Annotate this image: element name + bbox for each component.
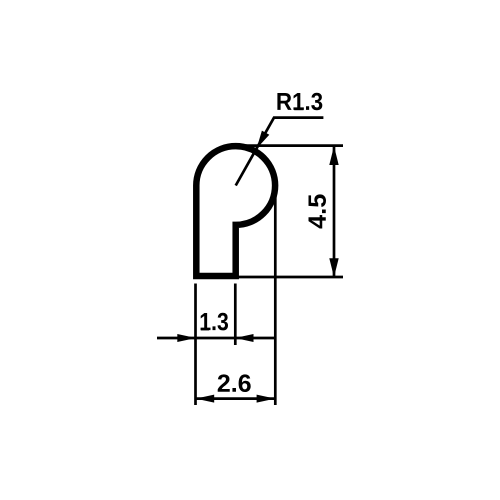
leader line R1.3 shelf and diagonal to circle centre xyxy=(236,118,324,186)
profile outline (P-seal cross-section) xyxy=(196,146,275,276)
label 2.6 xyxy=(218,374,251,392)
dimension line 4.5 vertical xyxy=(333,147,336,277)
arrowhead 2.6 right pointing right xyxy=(257,395,276,403)
arrowhead 1.3 right pointing left xyxy=(235,334,254,342)
extension line left below profile xyxy=(194,284,197,406)
label 4.5 (rotated) xyxy=(309,194,326,228)
dimension line 2.6 xyxy=(196,397,276,400)
label 1.3 xyxy=(201,313,228,331)
arrowhead 1.3 left pointing right xyxy=(177,334,196,342)
extension line bottom of profile xyxy=(238,276,343,279)
label R1.3 xyxy=(277,93,322,110)
arrowhead R1.3 on diagonal at circle edge xyxy=(257,131,270,149)
extension line right from bulb side xyxy=(274,192,277,405)
extension line top tangent to bulb xyxy=(236,144,343,147)
serif foot of digit 1 in label 1.3 xyxy=(201,328,209,330)
extension line middle below profile xyxy=(234,284,237,346)
arrowhead 4.5 bottom xyxy=(329,258,338,277)
dimension line 1.3 with left tail xyxy=(157,337,275,340)
arrowhead 4.5 top xyxy=(329,146,338,165)
arrowhead 2.6 left pointing left xyxy=(196,395,215,403)
serif foot of digit 1 in label R1.3 xyxy=(294,108,303,110)
